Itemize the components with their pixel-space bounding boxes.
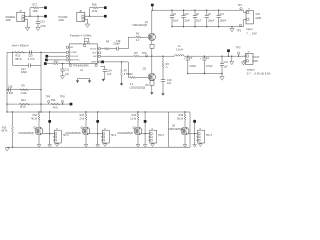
- svg-text:40.2k: 40.2k: [31, 118, 38, 121]
- svg-text:2.2: 2.2: [130, 83, 134, 86]
- test point TP6: [46, 95, 51, 104]
- svg-text:100k: 100k: [33, 10, 39, 13]
- wire J7 pin2 to ground: [27, 19, 28, 27]
- wire U1 ground bracket: [78, 79, 90, 81]
- svg-text:C17: C17: [21, 67, 26, 71]
- wire Q3 gate to header pin1: [42, 133, 55, 135]
- svg-text:CSD16410Q5: CSD16410Q5: [132, 24, 148, 27]
- ground under header J3: [55, 143, 59, 146]
- svg-text:Fswitch = 3 MHz: Fswitch = 3 MHz: [70, 34, 92, 38]
- capacitor C8 input: [193, 10, 202, 27]
- svg-text:Input: Input: [246, 27, 252, 31]
- capacitor C9 input: [170, 10, 179, 27]
- svg-text:VOUT: VOUT: [252, 55, 260, 59]
- svg-text:88.7k: 88.7k: [2, 130, 9, 133]
- connector header J3 HO 0: [53, 129, 69, 143]
- ground under header J5: [151, 143, 155, 146]
- svg-text:TP8: TP8: [60, 95, 65, 98]
- wire J6 pin1 to PGOOD net: [87, 16, 104, 17]
- wire feedback row R14 R11: [6, 103, 69, 104]
- svg-text:CSD16325Q5: CSD16325Q5: [168, 128, 184, 131]
- svg-text:470uF: 470uF: [189, 66, 196, 68]
- jumper box below Q1: [150, 44, 154, 73]
- svg-text:88.7k: 88.7k: [15, 57, 22, 61]
- ground on input ground bus: [230, 26, 234, 32]
- node gate net square 3: [193, 119, 197, 147]
- test point TP1: [238, 4, 243, 10]
- node gate net square 2: [143, 111, 147, 147]
- node PGOOD net square at U1: [45, 55, 66, 58]
- svg-text:CSD16325Q5: CSD16325Q5: [18, 132, 34, 135]
- wire gate drive bus: [6, 111, 168, 112]
- svg-text:1uF: 1uF: [107, 73, 112, 76]
- svg-text:R11: R11: [51, 99, 56, 102]
- test point TP3: [236, 46, 241, 56]
- wire U1 bottom corner pins: [69, 63, 97, 66]
- node PGOOD output net square: [104, 15, 107, 18]
- wire VIN bus: [152, 10, 243, 11]
- resistor R12 gate pull: [31, 111, 40, 127]
- resistor R2 gate Q2: [128, 73, 148, 86]
- svg-text:1uF: 1uF: [167, 82, 172, 85]
- svg-text:TP1: TP1: [238, 4, 243, 7]
- svg-text:R18: R18: [92, 4, 97, 7]
- svg-text:1.5nF: 1.5nF: [7, 92, 14, 95]
- ground under C14: [102, 79, 105, 82]
- wire LDRV line to R2: [100, 61, 128, 77]
- wire Q4 source to ground bus: [84, 135, 88, 147]
- transistor Q6: [168, 125, 189, 134]
- test point TP4: [142, 52, 148, 57]
- svg-text:R17: R17: [33, 4, 38, 7]
- wire J6 pin2 to ground: [87, 19, 88, 24]
- svg-text:TP2: TP2: [237, 29, 242, 32]
- svg-text:22uF: 22uF: [196, 21, 202, 23]
- capacitor C13 input: [217, 10, 227, 27]
- svg-text:CSD16325Q5: CSD16325Q5: [130, 87, 146, 90]
- svg-text:100uF: 100uF: [208, 21, 215, 23]
- svg-text:470uF: 470uF: [206, 66, 213, 68]
- svg-text:HO 1: HO 1: [111, 134, 117, 137]
- wire BOOT riser: [127, 37, 129, 49]
- node gate net square 1: [96, 111, 100, 147]
- svg-text:CSD16325Q5: CSD16325Q5: [117, 132, 133, 135]
- svg-text:22uF: 22uF: [173, 21, 179, 23]
- svg-text:49.9: 49.9: [53, 107, 58, 110]
- wire VIN bus to J1 pin1: [243, 10, 246, 12]
- svg-text:TP6: TP6: [46, 95, 51, 98]
- resistor R14: [20, 99, 30, 108]
- resistor R9: [20, 84, 29, 95]
- ground under C19: [161, 93, 164, 96]
- resistor R11: [51, 99, 60, 109]
- wire comp loop left vertical: [12, 52, 14, 65]
- svg-text:R14: R14: [21, 99, 26, 102]
- svg-text:C10: C10: [184, 14, 189, 16]
- svg-text:CSD16325Q5: CSD16325Q5: [65, 132, 81, 135]
- svg-text:EN/SYNC: EN/SYNC: [70, 60, 80, 62]
- svg-text:5.76k: 5.76k: [124, 73, 131, 76]
- ground under header J6: [199, 143, 203, 146]
- svg-text:4.7nF: 4.7nF: [28, 57, 35, 61]
- transistor Q5: [117, 127, 142, 135]
- wire SW sense line: [100, 55, 133, 57]
- test point TP8: [60, 95, 65, 104]
- ground under C21: [36, 27, 40, 30]
- svg-text:C12: C12: [65, 70, 70, 72]
- capacitor C11 output: [220, 56, 228, 73]
- svg-text:C21: C21: [40, 20, 45, 23]
- ground under output capacitors: [220, 77, 224, 80]
- svg-text:GND: GND: [6, 19, 12, 22]
- outline do-not-populate box around Q6 stage: [168, 112, 190, 147]
- wire switch node vertical: [151, 41, 152, 57]
- connector header J6 HO 3: [196, 129, 212, 143]
- svg-text:TPS40400DRC: TPS40400DRC: [73, 65, 90, 68]
- resistor R3 snubber: [162, 56, 169, 79]
- node VOUT net square: [227, 49, 230, 56]
- svg-text:220pF: 220pF: [113, 43, 120, 46]
- svg-text:VDD: VDD: [92, 53, 97, 55]
- label output voltage: [247, 67, 271, 75]
- capacitor C5 output: [183, 56, 196, 74]
- wire J7 pin1 to EN net: [27, 16, 45, 17]
- ground under C12: [61, 76, 65, 79]
- capacitor C6 input: [205, 10, 215, 27]
- svg-text:HO 3: HO 3: [206, 134, 212, 137]
- node EN net square: [44, 15, 47, 18]
- wire Q1 drain to VIN bus: [151, 10, 153, 33]
- wire SW node to snubber and inductor: [152, 56, 175, 57]
- svg-text:COMP: COMP: [70, 52, 77, 54]
- ground under Q2: [150, 92, 153, 95]
- capacitor C16: [7, 85, 14, 95]
- capacitor C14 VDD bypass: [100, 66, 112, 79]
- resistor R15: [15, 51, 25, 61]
- svg-text:R10: R10: [54, 61, 59, 64]
- svg-text:47nF: 47nF: [40, 25, 46, 28]
- capacitor C17 comp loop lower branch: [13, 63, 41, 74]
- connector J6 PGOOD header: [59, 10, 87, 22]
- wire left feedback vertical: [6, 52, 8, 112]
- capacitor C10 input: [181, 10, 190, 27]
- capacitor C15: [28, 50, 35, 61]
- ground under R7: [120, 83, 123, 86]
- resistor R18: [90, 4, 104, 17]
- wire Q5 source to ground bus: [136, 135, 140, 147]
- svg-text:HO 2: HO 2: [158, 134, 164, 137]
- svg-text:TP4: TP4: [142, 52, 147, 55]
- svg-text:1uF: 1uF: [224, 66, 229, 69]
- test point TP2: [237, 24, 242, 32]
- resistor R17: [30, 4, 44, 17]
- node VIN net square above Q1: [151, 4, 154, 11]
- ground under header J4: [103, 143, 107, 146]
- svg-text:C13: C13: [220, 14, 225, 16]
- resistor R13 gate pull: [79, 111, 87, 127]
- node gate net square 0: [48, 111, 52, 147]
- svg-text:BOOT: BOOT: [90, 49, 97, 51]
- wire input ground bus: [172, 26, 244, 28]
- connector J7 ENABLE header: [6, 10, 27, 22]
- resistor R7: [121, 62, 131, 83]
- svg-text:22uF: 22uF: [184, 21, 190, 23]
- svg-text:1uF: 1uF: [65, 74, 70, 76]
- svg-text:0.7 ... 0.9V @ 6.0A: 0.7 ... 0.9V @ 6.0A: [247, 71, 271, 75]
- resistor R1 gate Q1: [128, 33, 148, 42]
- svg-text:100nF: 100nF: [220, 21, 227, 23]
- svg-text:2.2: 2.2: [136, 39, 140, 42]
- connector J2 VOUT output: [244, 52, 260, 65]
- ground under J7: [25, 27, 29, 30]
- transistor Q2 low side: [130, 67, 156, 89]
- wire FB compensation line: [7, 52, 66, 53]
- resistor R19 gate pull: [177, 111, 186, 127]
- capacitor C19 snubber: [161, 79, 172, 93]
- svg-text:18pF: 18pF: [21, 70, 27, 74]
- svg-text:GND: GND: [252, 59, 258, 63]
- node R18 net square: [104, 6, 107, 9]
- wire J1 pin2 to input ground bus: [243, 19, 246, 26]
- svg-text:C11: C11: [224, 61, 229, 64]
- wire comp loop right vertical: [40, 52, 42, 112]
- capacitor C21: [36, 16, 46, 28]
- resistor R6 SW: [134, 52, 152, 57]
- ground under J2: [241, 62, 245, 65]
- resistor R5 boot: [100, 40, 116, 49]
- svg-text:TP3: TP3: [236, 46, 241, 49]
- wire Q3 source to ground bus: [37, 135, 41, 147]
- ground under J6: [85, 24, 89, 27]
- wire Q5 gate to header pin1: [141, 133, 150, 135]
- connector header J4 HO 1: [101, 129, 117, 143]
- transistor Q4: [65, 127, 90, 135]
- inductor L1: [175, 45, 184, 56]
- svg-text:10.0k: 10.0k: [92, 10, 99, 13]
- resistor R14 gate pull: [130, 111, 139, 127]
- connector header J5 HO 2: [148, 129, 164, 143]
- ground under U1 right: [88, 80, 91, 83]
- transistor Q1 high side: [132, 21, 155, 41]
- svg-text:GND: GND: [59, 19, 65, 22]
- label input voltage: [246, 27, 257, 36]
- capacitor C4 output: [200, 56, 213, 74]
- wire feedback row C16 R9: [6, 89, 41, 90]
- svg-text:1.02k: 1.02k: [21, 92, 28, 95]
- node R17 output net square: [44, 6, 47, 9]
- node VDD net square: [101, 61, 104, 64]
- capacitor C12 ILIM filter: [60, 64, 70, 77]
- wire Q6 gate to header pin1: [188, 133, 198, 135]
- svg-text:2.0k: 2.0k: [79, 118, 84, 121]
- wire bottom ground bus: [7, 147, 190, 148]
- sense box below Q2 source: [145, 81, 154, 93]
- svg-text:18.2k: 18.2k: [20, 106, 27, 109]
- wire VOUT bus: [184, 56, 246, 57]
- ground stub on VOUT bus: [230, 56, 234, 64]
- wire Q6 source to ground bus: [183, 135, 187, 147]
- ground at ground bus left end: [5, 148, 9, 151]
- resistor R10 ILIM row: [44, 61, 69, 65]
- svg-text:C16: C16: [8, 85, 13, 88]
- svg-text:1.0uH: 1.0uH: [176, 49, 183, 52]
- node VOUT sense net square: [70, 103, 73, 106]
- svg-text:PGOOD: PGOOD: [70, 56, 79, 58]
- transistor Q3: [18, 127, 43, 135]
- ground under U1 left: [76, 80, 79, 83]
- wire J2 pin2 to ground: [242, 61, 244, 62]
- svg-text:7 ... 14V: 7 ... 14V: [246, 32, 257, 36]
- node EN net square at U1: [45, 59, 66, 62]
- svg-text:VIN: VIN: [256, 12, 260, 16]
- svg-text:Vref = 600mV: Vref = 600mV: [12, 43, 29, 47]
- capacitor C18 boot: [113, 40, 128, 51]
- power flag above U1 VIN pin: [83, 38, 89, 46]
- svg-text:56.2k: 56.2k: [177, 118, 184, 121]
- svg-text:GND: GND: [256, 16, 262, 20]
- resistor R16: [2, 112, 14, 147]
- svg-text:11.3k: 11.3k: [130, 118, 137, 121]
- wire Q4 gate to header pin1: [89, 133, 103, 135]
- connector J1 VIN input: [244, 9, 261, 24]
- wire output capacitor ground bus: [188, 73, 223, 77]
- op-amp U1 TPS40400 controller IC: [66, 44, 100, 72]
